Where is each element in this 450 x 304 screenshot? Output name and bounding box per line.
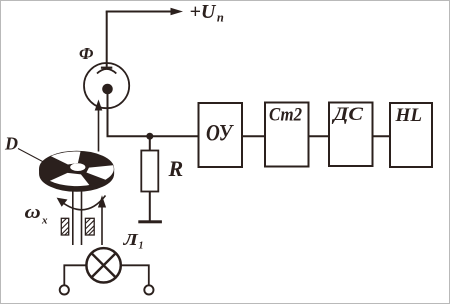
disc hub <box>70 163 85 171</box>
wire OU to St2 <box>242 135 265 137</box>
resistor R <box>141 151 158 192</box>
lamp Л1 circle <box>86 248 120 282</box>
node: junction of photocell, R and OU input <box>146 133 153 140</box>
photocell Ф envelope <box>84 63 129 108</box>
wire: resistor to ground <box>149 192 151 221</box>
white sector upper-left <box>51 152 80 165</box>
ground <box>138 220 162 223</box>
block ОУ (op-amp) <box>199 103 243 167</box>
svg-text:ДС: ДС <box>331 104 363 125</box>
wire: junction to resistor <box>149 136 151 150</box>
disc D group <box>40 152 114 192</box>
leader line from D to disc <box>18 149 44 163</box>
wire: lamp left terminal <box>64 265 87 285</box>
svg-text:Ст2: Ст2 <box>269 105 302 126</box>
light ray right through slit <box>81 190 83 245</box>
photocell cathode arc <box>97 69 116 74</box>
terminal right <box>144 285 153 294</box>
svg-text:Л: Л <box>122 230 139 249</box>
light ray left through slit <box>72 190 74 245</box>
svg-text:HL: HL <box>394 105 422 126</box>
lamp cross <box>91 253 115 277</box>
light arrow from lamp to disc <box>101 205 103 245</box>
svg-text:Ф: Ф <box>79 44 94 63</box>
rotation arrowhead <box>57 198 68 207</box>
light arrow into photocell <box>98 108 100 152</box>
photocell anode dot <box>102 84 113 95</box>
wire St2 to DS <box>309 135 330 137</box>
white sector right <box>86 165 113 179</box>
terminal left <box>60 285 69 294</box>
disc top face <box>40 152 114 187</box>
arrowhead to +Up <box>171 8 184 16</box>
svg-text:+Uп: +Uп <box>190 1 224 25</box>
wire: lamp right terminal <box>120 265 148 285</box>
svg-text:ω: ω <box>25 202 41 223</box>
photocell cathode bar <box>101 67 112 69</box>
wire: supply lead vertical from photocell to top corner <box>106 12 108 67</box>
block HL <box>390 103 432 167</box>
svg-text:1: 1 <box>139 241 144 252</box>
rotation arc arrow <box>62 196 106 210</box>
svg-text:ОУ: ОУ <box>206 121 234 146</box>
wire: supply lead horizontal with arrow to +Up <box>106 11 171 13</box>
block ДС <box>329 103 373 167</box>
svg-text:R: R <box>168 156 184 181</box>
svg-text:x: x <box>41 215 48 227</box>
disc rim (side) <box>40 169 114 191</box>
wire: anode lead down and right to junction <box>108 93 199 136</box>
slit plate left (hatched) <box>61 218 68 235</box>
block Ст2 <box>265 103 309 167</box>
wire DS to HL <box>373 135 391 137</box>
slit plate right (hatched) <box>85 218 94 235</box>
white sector bottom <box>50 173 89 186</box>
svg-text:D: D <box>4 134 18 154</box>
